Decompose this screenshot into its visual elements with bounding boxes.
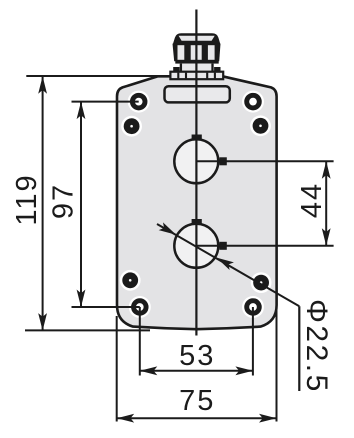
cable gland ribbed nut — [173, 44, 221, 64]
svg-text:119: 119 — [11, 173, 43, 225]
pushbutton hole bottom — [174, 219, 226, 268]
cable gland neck — [173, 64, 220, 72]
corner stud bottom-left — [120, 270, 141, 291]
svg-text:97: 97 — [47, 183, 79, 219]
dimension 75 line — [117, 414, 277, 423]
svg-text:Φ22.5: Φ22.5 — [300, 299, 333, 394]
dimension 97 extension line bottom — [72, 306, 140, 308]
enclosure body — [117, 76, 277, 329]
mounting screw top-right — [242, 91, 264, 113]
mounting screw top-left — [128, 91, 150, 113]
leader line diameter 22.5 — [157, 222, 299, 391]
dimension 97 line — [77, 102, 86, 307]
cable gland cap — [173, 33, 220, 44]
leader line from top hole center — [196, 160, 333, 162]
dimension 119 extension line bottom — [25, 329, 150, 331]
svg-text:53: 53 — [179, 340, 215, 372]
dimension 75 extension line left — [116, 316, 118, 422]
corner stud top-left — [121, 116, 142, 137]
cable gland locknut flange — [170, 72, 223, 80]
dimension 44 text — [296, 182, 328, 218]
dimension 119 extension line top — [26, 75, 165, 77]
diameter 22.5 text — [300, 299, 333, 394]
dimension 53 extension line right — [252, 307, 254, 376]
dimension 97 extension line top — [72, 101, 139, 103]
corner stud bottom-right — [251, 272, 272, 293]
corner stud top-right — [250, 115, 271, 136]
dimension 53 line — [140, 366, 253, 375]
dimension 75 text — [179, 385, 215, 417]
dimension 119 text — [11, 173, 43, 225]
mounting screw bottom-left — [129, 296, 151, 318]
mounting screw bottom-right — [242, 296, 264, 318]
dimension 53 text — [179, 340, 215, 372]
vertical center line — [195, 10, 197, 336]
dimension 75 extension line right — [276, 300, 278, 422]
dimension 97 text — [47, 183, 79, 219]
svg-text:75: 75 — [179, 385, 215, 417]
label plate — [165, 86, 230, 102]
dimension 53 extension line left — [139, 307, 141, 376]
dimension 44 line — [322, 161, 331, 246]
svg-text:44: 44 — [296, 182, 328, 218]
dimension 119 line — [38, 76, 47, 330]
leader line from bottom hole center — [196, 245, 333, 247]
pushbutton hole top — [174, 135, 226, 184]
